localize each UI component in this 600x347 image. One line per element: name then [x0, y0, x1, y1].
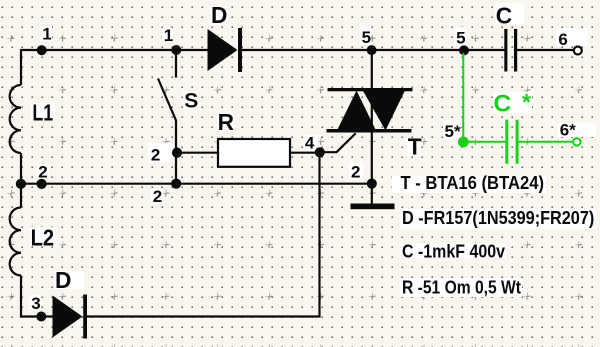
svg-text:5: 5 [362, 28, 371, 47]
svg-text:T - BTA16 (BTA24): T - BTA16 (BTA24) [401, 173, 545, 193]
svg-text:T: T [408, 134, 422, 160]
svg-text:1: 1 [42, 25, 51, 44]
svg-text:R -51 Om 0,5 Wt: R -51 Om 0,5 Wt [402, 277, 521, 297]
svg-text:D: D [55, 267, 71, 293]
svg-text:R: R [218, 109, 234, 135]
svg-text:C: C [496, 2, 512, 28]
svg-text:*: * [522, 89, 531, 115]
svg-text:6*: 6* [560, 121, 576, 140]
svg-text:2: 2 [38, 162, 47, 181]
svg-text:2: 2 [153, 187, 162, 206]
svg-text:D -FR157(1N5399;FR207): D -FR157(1N5399;FR207) [402, 208, 594, 228]
svg-text:2: 2 [151, 146, 160, 165]
svg-text:L2: L2 [31, 224, 54, 250]
svg-text:4: 4 [305, 134, 315, 153]
svg-text:5: 5 [456, 29, 465, 48]
svg-text:C -1mkF 400v: C -1mkF 400v [402, 241, 505, 261]
svg-text:5*: 5* [445, 122, 461, 141]
svg-text:S: S [184, 90, 198, 113]
svg-text:L1: L1 [32, 99, 53, 125]
svg-text:6: 6 [558, 30, 567, 49]
svg-text:C: C [494, 90, 512, 117]
svg-text:3: 3 [31, 294, 40, 313]
svg-text:2: 2 [351, 163, 360, 182]
svg-text:1: 1 [164, 26, 173, 45]
svg-text:D: D [211, 2, 227, 28]
